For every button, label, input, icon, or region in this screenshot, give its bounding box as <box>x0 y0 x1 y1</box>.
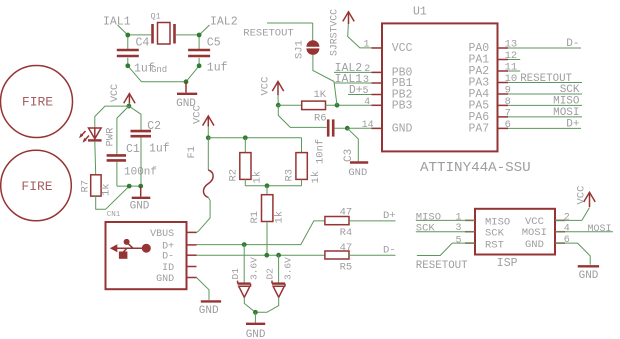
svg-text:13: 13 <box>505 39 518 51</box>
wire C2 branch <box>117 137 143 188</box>
svg-text:D-: D- <box>566 38 579 50</box>
svg-text:1k: 1k <box>274 211 286 224</box>
IC U1 box <box>382 6 531 177</box>
svg-text:R5: R5 <box>340 261 353 273</box>
svg-text:4: 4 <box>564 224 570 235</box>
wire R2 R3 join <box>245 179 301 188</box>
U1 pin 6 wire D+ <box>498 118 582 131</box>
node RESETOUT to RST <box>416 243 475 272</box>
wire VCC node <box>126 104 131 109</box>
wire R6 to pin4 <box>326 103 383 108</box>
USB pin labels <box>150 229 174 285</box>
node IAL1 pin3 <box>334 73 382 86</box>
node RESETOUT <box>243 23 312 41</box>
U1 pin 7 wire MOSI <box>498 107 583 120</box>
svg-text:VCC: VCC <box>260 77 272 96</box>
svg-text:D-: D- <box>162 252 174 263</box>
supply VCC arrow (pin1) <box>343 12 354 24</box>
svg-text:GND: GND <box>525 239 544 251</box>
svg-text:ISP: ISP <box>497 257 518 270</box>
ground GND6 <box>555 243 599 282</box>
svg-text:4: 4 <box>364 97 370 108</box>
svg-text:47: 47 <box>340 242 353 254</box>
resistor R7 <box>80 175 113 196</box>
svg-text:R6: R6 <box>314 113 327 125</box>
wire to C1 <box>117 106 129 155</box>
ground GND1 <box>176 82 197 110</box>
wire R7 to gnd rail <box>96 186 130 219</box>
svg-text:C3: C3 <box>343 149 355 162</box>
U1 pin leads <box>372 48 509 128</box>
svg-text:C4: C4 <box>136 37 150 50</box>
svg-text:10nf: 10nf <box>315 139 327 164</box>
svg-text:FIRE: FIRE <box>22 95 53 110</box>
ISP pin leads <box>465 220 565 243</box>
svg-text:9: 9 <box>505 85 511 97</box>
wire LED to R7 <box>94 141 97 175</box>
svg-text:C2: C2 <box>147 120 161 133</box>
resistor R4 <box>325 207 352 239</box>
svg-text:C5: C5 <box>207 37 221 50</box>
svg-text:1: 1 <box>363 39 369 50</box>
U1 pin 12 stub <box>498 50 521 62</box>
svg-text:7: 7 <box>505 108 511 120</box>
node D+ right <box>349 210 396 222</box>
USB connector CN1 box <box>106 222 187 289</box>
svg-text:R1: R1 <box>249 211 261 224</box>
ISP header box <box>475 209 555 270</box>
svg-text:VBUS: VBUS <box>150 229 174 240</box>
LED light arrows <box>79 131 89 143</box>
svg-text:RESETOUT: RESETOUT <box>243 27 293 39</box>
svg-text:C1: C1 <box>126 143 140 156</box>
svg-text:VCC: VCC <box>192 105 204 124</box>
svg-text:1uf: 1uf <box>149 143 170 156</box>
node MISO <box>416 211 475 223</box>
svg-text:5: 5 <box>362 86 368 97</box>
wire C3 to pin14 <box>335 126 382 131</box>
supply VCC arrow (LED) <box>110 84 135 104</box>
svg-text:12: 12 <box>505 50 518 62</box>
svg-text:VCC: VCC <box>525 216 544 228</box>
svg-text:10: 10 <box>505 73 518 85</box>
svg-text:1uf: 1uf <box>207 61 228 74</box>
wire D- <box>197 253 325 258</box>
svg-text:11: 11 <box>505 62 518 74</box>
resistor R6 <box>302 89 327 125</box>
svg-text:FIRE: FIRE <box>21 179 52 194</box>
wire USB gnd <box>197 278 210 301</box>
svg-text:SCK: SCK <box>485 228 505 240</box>
wire to LED <box>95 106 129 128</box>
wire VCC to C3 <box>278 105 326 127</box>
svg-text:Gnd: Gnd <box>151 65 167 75</box>
svg-text:RESETOUT: RESETOUT <box>416 260 468 272</box>
svg-text:1k: 1k <box>310 171 322 184</box>
svg-text:F1: F1 <box>186 146 198 159</box>
svg-text:R3: R3 <box>284 169 296 182</box>
jumper SJ1 <box>294 9 340 59</box>
ISP pin names <box>485 216 547 252</box>
node MOSI <box>555 224 613 235</box>
pad FIRE2 <box>1 150 72 221</box>
wire crystal bottom <box>125 58 201 84</box>
svg-text:D1: D1 <box>230 268 241 280</box>
svg-text:5: 5 <box>455 235 461 246</box>
node IAL2 pin2 <box>334 62 382 75</box>
resistor R1 <box>249 186 286 255</box>
svg-text:VCC: VCC <box>576 186 588 205</box>
svg-text:ID: ID <box>162 263 174 274</box>
svg-text:PA7: PA7 <box>468 122 489 135</box>
svg-text:GND: GND <box>199 305 219 317</box>
svg-text:GND: GND <box>348 167 367 179</box>
svg-text:CN1: CN1 <box>107 211 121 219</box>
svg-text:14: 14 <box>362 120 374 131</box>
svg-text:GND: GND <box>130 201 150 213</box>
svg-text:3.6V: 3.6V <box>249 257 260 280</box>
wire crystal left <box>125 33 201 50</box>
svg-text:D2: D2 <box>265 268 276 280</box>
svg-text:1K: 1K <box>314 89 327 101</box>
svg-text:2: 2 <box>364 64 370 75</box>
capacitor C3 <box>315 119 356 164</box>
svg-text:1k: 1k <box>101 183 113 196</box>
svg-text:GND: GND <box>156 274 174 285</box>
diode D2 <box>265 255 294 297</box>
svg-text:VCC: VCC <box>392 42 413 55</box>
svg-text:GND: GND <box>246 329 266 339</box>
capacitor C2 <box>131 120 170 156</box>
svg-text:6: 6 <box>564 235 570 246</box>
ground GND3 <box>347 128 368 179</box>
resistor R3 <box>284 138 323 184</box>
node D+ pin5 <box>348 84 382 97</box>
diode D1 <box>230 245 260 298</box>
LED PWR <box>88 127 117 147</box>
supply VCC arrow (fuse) <box>192 105 214 126</box>
supply VCC arrow (R6) <box>260 77 284 96</box>
U1 pin 10 wire RESETOUT <box>498 73 583 85</box>
node IAL2 <box>199 15 238 35</box>
node SCK <box>416 223 475 235</box>
U1 pin names right <box>468 42 489 135</box>
wire to C2 <box>129 106 141 131</box>
fuse F1 <box>186 138 213 233</box>
svg-text:R4: R4 <box>340 227 353 239</box>
svg-text:R7: R7 <box>80 180 92 193</box>
svg-text:3: 3 <box>363 75 369 86</box>
svg-text:D+: D+ <box>349 84 363 97</box>
svg-text:1: 1 <box>455 213 461 224</box>
U1 pin 11 stub <box>498 62 521 74</box>
svg-text:SCK: SCK <box>560 84 580 96</box>
svg-text:3: 3 <box>455 223 461 234</box>
U1 pin 8 wire MISO <box>498 95 583 108</box>
ground GND2 <box>130 186 151 212</box>
node D- right <box>349 245 396 257</box>
svg-text:RST: RST <box>485 239 504 251</box>
capacitor C1 <box>107 143 157 179</box>
svg-text:GND: GND <box>579 270 599 282</box>
wire VCC to rail <box>206 127 302 141</box>
resistor R2 <box>228 138 264 184</box>
wire VCC to R6 <box>276 95 302 107</box>
U1 pin 9 wire SCK <box>498 84 583 97</box>
USB icon <box>110 239 151 259</box>
wire VCC to pin1 <box>348 24 382 48</box>
ISP pin numbers <box>455 212 569 246</box>
svg-text:MOSI: MOSI <box>587 224 611 235</box>
resistor R5 <box>325 242 352 273</box>
svg-text:D-: D- <box>383 245 396 257</box>
ground GND5 <box>199 301 221 317</box>
svg-text:D+: D+ <box>566 118 579 130</box>
svg-text:MOSI: MOSI <box>522 227 547 239</box>
svg-text:6: 6 <box>505 119 511 131</box>
svg-text:47: 47 <box>340 207 353 219</box>
svg-text:IAL1: IAL1 <box>103 15 131 28</box>
svg-text:PWR: PWR <box>105 127 117 147</box>
capacitor C4 <box>117 37 155 76</box>
U1 pin 13 wire D- <box>498 38 582 51</box>
wire SJ1 to pin4 <box>313 55 337 105</box>
node IAL1 <box>103 15 131 35</box>
supply VCC arrow (ISP) <box>555 186 595 221</box>
svg-text:SCK: SCK <box>416 223 436 235</box>
svg-text:SJRSTVCC: SJRSTVCC <box>329 9 340 56</box>
svg-text:ATTINY44A-SSU: ATTINY44A-SSU <box>420 160 531 176</box>
svg-text:U1: U1 <box>413 6 427 19</box>
svg-text:MISO: MISO <box>553 95 580 107</box>
U1 pin names left <box>392 42 413 135</box>
svg-text:MISO: MISO <box>416 211 441 223</box>
svg-text:R2: R2 <box>228 169 240 182</box>
svg-text:SJ1: SJ1 <box>294 40 306 59</box>
svg-text:Q1: Q1 <box>151 12 161 22</box>
svg-text:PB3: PB3 <box>392 99 413 112</box>
svg-text:VCC: VCC <box>110 84 121 102</box>
USB pin leads <box>187 232 197 277</box>
ground GND4 <box>246 312 266 339</box>
svg-text:8: 8 <box>505 96 511 108</box>
wire D+ <box>197 221 325 247</box>
svg-text:2: 2 <box>564 212 570 223</box>
svg-text:1k: 1k <box>252 171 264 184</box>
pad FIRE1 <box>1 66 73 138</box>
svg-text:3.6V: 3.6V <box>283 257 294 280</box>
svg-text:IAL2: IAL2 <box>210 15 238 28</box>
capacitor C5 <box>188 37 228 75</box>
crystal Q1 <box>151 12 175 44</box>
wire zeners to gnd <box>244 297 278 314</box>
svg-text:MOSI: MOSI <box>553 107 579 119</box>
svg-text:D+: D+ <box>383 210 396 222</box>
svg-text:GND: GND <box>392 122 413 135</box>
